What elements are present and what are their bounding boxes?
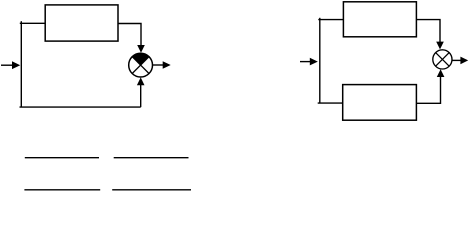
arrowhead output (left diagram) [163, 61, 171, 69]
block G3 (right diagram bottom box) [343, 85, 417, 121]
summing junction S1 filled top sector [132, 53, 149, 65]
arrowhead into junction top (left diagram) [137, 45, 145, 53]
wire block G1 output to junction (left diagram) [118, 24, 141, 47]
wire bottom path up to junction (left diagram) [140, 85, 142, 108]
block G2 (right diagram top box) [343, 2, 416, 37]
answer blank line 3 (row 2 left) [24, 189, 100, 191]
wire split to block G3 input [318, 102, 343, 104]
wire block G2 output to junction (right diagram) [416, 20, 440, 43]
wire input arrow shaft (right diagram) [300, 61, 311, 63]
wire split to block G2 input [318, 19, 343, 21]
wire feedforward bottom path (left diagram) [20, 106, 141, 108]
block G1 (left diagram forward box) [45, 5, 118, 41]
wire split to block G1 input [20, 22, 45, 24]
wire output shaft (left diagram) [153, 64, 164, 66]
summing junction S1 X diagonal NE-SW [132, 57, 149, 74]
summing junction S2 X diagonal NW-SE [436, 53, 450, 67]
summing junction S1 circle (left diagram, top sector filled) [129, 53, 153, 77]
summing junction S2 circle (right diagram) [433, 50, 452, 69]
answer blank line 1 (row 1 left) [25, 157, 99, 159]
wire output shaft (right diagram) [452, 59, 462, 61]
node split vertical wire (left diagram) [20, 21, 22, 107]
wire block G3 output to junction (right diagram) [416, 77, 440, 104]
arrowhead into junction top (right diagram) [436, 42, 444, 50]
arrowhead output (right diagram) [460, 57, 468, 65]
node split vertical wire (right diagram) [319, 18, 321, 103]
wire input arrow shaft (left diagram) [1, 64, 14, 66]
arrowhead input (right diagram) [310, 58, 318, 66]
summing junction S1 X diagonal NW-SE [132, 57, 149, 74]
arrowhead input (left diagram) [12, 61, 20, 69]
answer blank line 2 (row 1 right) [114, 157, 189, 159]
summing junction S2 X diagonal NE-SW [436, 53, 450, 67]
arrowhead into junction bottom (right diagram) [437, 69, 445, 77]
arrowhead into junction bottom (left diagram) [137, 77, 145, 85]
answer blank line 4 (row 2 right) [112, 189, 191, 191]
